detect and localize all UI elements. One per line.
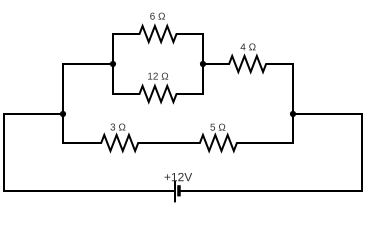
wire: node B to outer left edge [4, 113, 63, 115]
node junction dot (203,64) [200, 61, 206, 67]
wire: left vertical side of parallel box [112, 34, 114, 94]
wire: outer left vertical [3, 114, 5, 191]
resistor R1 6 ohm, top parallel branch [113, 26, 203, 42]
label "5 ohm" [210, 124, 225, 131]
node junction dot (63,114) [60, 111, 66, 117]
resistor R2 12 ohm, bottom parallel branch [113, 86, 203, 102]
node junction dot (113,64) [110, 61, 116, 67]
resistor R5 5 ohm, series branch [162, 135, 293, 151]
label "+12V" battery voltage [165, 173, 193, 181]
wire: right vertical side of parallel box [202, 34, 204, 94]
wire: outer right vertical [361, 114, 363, 191]
resistor R3 4 ohm, right series resistor [203, 56, 293, 72]
battery V1 negative plate (short thick) [177, 185, 181, 196]
label "4 ohm" [241, 43, 256, 50]
wire: bottom left to battery [4, 190, 174, 192]
wire: left branch vertical through node B [62, 64, 64, 143]
label "12 ohm" [148, 73, 168, 80]
wire: battery to bottom right [181, 190, 362, 192]
node junction dot (293,114) [290, 111, 296, 117]
label "3 ohm" [110, 124, 125, 131]
wire: node D to outer right edge [293, 113, 362, 115]
wire: right branch vertical through node D [292, 64, 294, 143]
wire: node A to parallel box left [63, 63, 113, 65]
resistor R4 3 ohm, series branch [63, 135, 162, 151]
battery V1 positive plate (long) [174, 180, 176, 202]
label "6 ohm" [150, 13, 165, 20]
